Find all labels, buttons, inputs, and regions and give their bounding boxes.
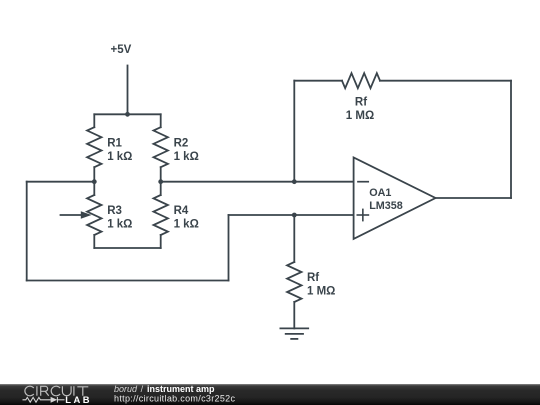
svg-text:1 kΩ: 1 kΩ	[174, 151, 199, 163]
svg-text:1 kΩ: 1 kΩ	[107, 151, 132, 163]
svg-text:borud: borud	[114, 384, 138, 394]
svg-text:Rf: Rf	[307, 272, 319, 284]
svg-text:instrument amp: instrument amp	[147, 384, 215, 394]
svg-text:1 kΩ: 1 kΩ	[174, 219, 199, 231]
svg-text:1 MΩ: 1 MΩ	[307, 286, 335, 298]
svg-text:1 MΩ: 1 MΩ	[346, 110, 374, 122]
svg-text:R2: R2	[174, 137, 189, 149]
svg-text:+5V: +5V	[111, 44, 132, 56]
svg-text:LM358: LM358	[369, 200, 403, 212]
svg-text:Rf: Rf	[355, 97, 367, 109]
svg-text:http://circuitlab.com/c3r252c: http://circuitlab.com/c3r252c	[114, 394, 236, 404]
svg-text:R3: R3	[107, 205, 122, 217]
svg-text:LAB: LAB	[65, 394, 92, 405]
svg-text:R1: R1	[107, 137, 122, 149]
svg-text:OA1: OA1	[369, 187, 391, 199]
svg-text:1 kΩ: 1 kΩ	[107, 219, 132, 231]
svg-text:R4: R4	[174, 205, 189, 217]
